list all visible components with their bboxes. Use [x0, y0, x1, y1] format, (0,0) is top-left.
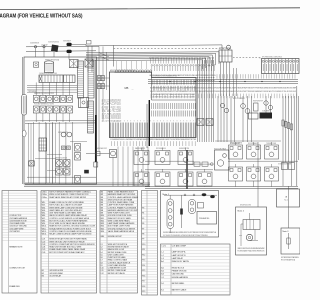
- stub row with terminal loops upper middle row 2: [151, 65, 153, 67]
- shielded cable center dark bar: [148, 100, 150, 146]
- svg-text:REAR MOTOR BODY MAIN: REAR MOTOR BODY MAIN: [108, 217, 131, 220]
- relay K8: [40, 106, 46, 113]
- connector tick row on bundle: [197, 77, 199, 79]
- note1 small box: [198, 203, 204, 209]
- svg-text:3M6795NS22S4U7HPHINPAMKWW4M2: 3M6795NS22S4U7HPHINPAMKWW4M2: [238, 247, 265, 250]
- svg-text:F11: F11: [142, 249, 145, 251]
- main harness bus top line B+: [86, 45, 222, 46]
- svg-text:F12: F12: [142, 254, 145, 256]
- svg-text:GROUND REAR: GROUND REAR: [49, 272, 63, 275]
- svg-text:F16: F16: [142, 275, 145, 277]
- svg-text:LAMP REAR SIGNAL HARNESS: LAMP REAR SIGNAL HARNESS: [108, 222, 135, 225]
- note1 top feed wire: [164, 194, 217, 196]
- svg-text:RELAY BLOCK: RELAY BLOCK: [172, 266, 185, 269]
- wire from C1 to bus: [72, 43, 86, 45]
- connector strip CN10 vertical pins: [78, 61, 84, 98]
- table: main harness connector T2: [41, 191, 97, 294]
- lamp L1: [56, 160, 62, 167]
- relay box K0b with hatch: [85, 59, 93, 67]
- ignition relay blob: [51, 45, 59, 53]
- sub module pin ticks row 1: [152, 80, 154, 85]
- mid tick rows right of ECU: [151, 103, 153, 109]
- svg-text:MAIN HORN GLOW: MAIN HORN GLOW: [108, 248, 125, 251]
- svg-text:HVC39VB3A9HG5A: HVC39VB3A9HG5A: [281, 259, 296, 262]
- right harness bundle: [282, 96, 284, 162]
- svg-text:ENGINE SENSOR VALVE: ENGINE SENSOR VALVE: [108, 246, 130, 249]
- IG main vertical: [113, 45, 115, 66]
- svg-text:—: —: [132, 89, 134, 91]
- svg-text:W13L: W13L: [42, 233, 47, 235]
- fuse box FB2 striped: [262, 59, 300, 74]
- bottom bus right section: [145, 186, 298, 188]
- bus merge diagonals: [99, 53, 109, 57]
- horizontal link wires lower panel: [25, 119, 95, 122]
- connector strip CN11 vertical pins: [88, 61, 94, 98]
- svg-text:TJPPOKF9B: TJPPOKF9B: [28, 91, 36, 93]
- relay K9: [47, 106, 53, 113]
- panel bottom double line: [24, 185, 150, 187]
- note1 terminal circles: [184, 194, 186, 196]
- injector group row1 INJ3: [178, 151, 193, 165]
- resistors on right bundle: [282, 120, 284, 126]
- glow plug wires group: [217, 96, 219, 142]
- shield drain wire: [146, 104, 148, 148]
- connector C1: [67, 43, 72, 46]
- sub module pin ticks row 2: [153, 86, 155, 91]
- wire harness top-left horizontal: [26, 45, 99, 48]
- svg-text:M16: M16: [101, 231, 105, 233]
- capacitor block: [62, 146, 66, 150]
- glow relay box: [249, 113, 259, 119]
- right bundle extra wire: [298, 96, 300, 160]
- svg-text:F5: F5: [142, 218, 144, 220]
- blower motor M2: [110, 150, 117, 158]
- junction dots on bus: [170, 81, 171, 82]
- svg-text:BODY REAR LIGHT HORN: BODY REAR LIGHT HORN: [108, 225, 131, 228]
- svg-text:VALVE SOLENOID LAMP WIRE HEAD: VALVE SOLENOID LAMP WIRE HEAD RELAY: [49, 214, 87, 217]
- ECU side connectors CN5 CN6: [98, 76, 101, 81]
- svg-text:LAMP GROUP A: LAMP GROUP A: [172, 251, 186, 254]
- vacuum valve VSV0: [220, 103, 224, 107]
- extra horizontal links lower panel: [47, 154, 62, 156]
- svg-text:REAR VALVE REAR RELAY POWER ME: REAR VALVE REAR RELAY POWER METER: [49, 196, 87, 199]
- svg-text:F13: F13: [142, 260, 145, 262]
- svg-text:A-1: A-1: [161, 260, 164, 263]
- svg-text:ID7D2SEIJUG1: ID7D2SEIJUG1: [156, 148, 166, 150]
- fuse block strip: [39, 75, 63, 82]
- svg-text:B-1: B-1: [161, 267, 164, 269]
- wires ECU left side: [105, 77, 110, 79]
- vertical wires left of ECU: [98, 47, 100, 152]
- note1 sub-circuit box: [161, 191, 219, 238]
- engine control module MB stepped outline: [110, 72, 197, 138]
- svg-text:F18: F18: [142, 286, 145, 288]
- svg-text:EL3FS938R8AUKPAD8L754JHBH7T9CC: EL3FS938R8AUKPAD8L754JHBH7T9CC2P5C3S3EEW…: [150, 87, 297, 90]
- svg-text:Note 2: Note 2: [238, 209, 245, 212]
- svg-text:LAMP HORN PUMP HARNESS: LAMP HORN PUMP HARNESS: [108, 204, 134, 207]
- injector group row2 SV4: [197, 172, 212, 186]
- relay box K0 with hatch: [70, 60, 79, 68]
- svg-text:E-1: E-1: [161, 289, 164, 291]
- svg-text:UNIT WIRE REAR GLOW PANEL WIRE: UNIT WIRE REAR GLOW PANEL WIRE: [49, 212, 82, 215]
- svg-text:RELAY COMB SOLENOID LAMP PUMP: RELAY COMB SOLENOID LAMP PUMP SOLENOID: [49, 232, 92, 235]
- lamp L3: [56, 168, 62, 175]
- svg-text:CN7 METER: CN7 METER: [9, 231, 20, 233]
- coil row baseline: [115, 71, 152, 73]
- relay K1: [33, 95, 39, 102]
- svg-text:BATTERY CABLE: BATTERY CABLE: [172, 288, 187, 291]
- junction block label box right: [277, 189, 300, 207]
- relay K12: [67, 106, 73, 113]
- svg-text:CN4 FRAME WIRE: CN4 FRAME WIRE: [9, 222, 25, 225]
- svg-text:METER COMB RELAY: METER COMB RELAY: [108, 269, 127, 272]
- svg-text:CONTROL VALVE SWITCH: CONTROL VALVE SWITCH: [108, 261, 131, 264]
- svg-text:PLUG WIRE GLOW VALVE VALVE ENG: PLUG WIRE GLOW VALVE VALVE ENGINE: [49, 222, 85, 225]
- svg-text:CONTROL REAR PLUG FRAME GROUND: CONTROL REAR PLUG FRAME GROUND ENGINE: [49, 230, 92, 233]
- svg-text:BHJ1J16OCWH8I4: BHJ1J16OCWH8I4: [230, 143, 242, 145]
- fusible link FL2 on left rail: [22, 95, 27, 116]
- note2 motor circle: [246, 234, 252, 240]
- fuse F0 oval on left rail: [22, 130, 26, 137]
- bus drop verticals left: [87, 46, 89, 72]
- injector group row1 INJ1: [134, 151, 149, 165]
- relay K10: [53, 106, 59, 113]
- svg-text:VALVE REAR HARNESS VALVE: VALVE REAR HARNESS VALVE: [108, 230, 135, 233]
- svg-text:UU4UH3RMO8: UU4UH3RMO8: [30, 42, 39, 44]
- svg-text:F10: F10: [142, 244, 145, 246]
- injector group row2 SV5: [229, 167, 243, 181]
- stub row with terminal loops upper middle row 1: [150, 57, 152, 59]
- wire drops from relays to bottom bus: [35, 113, 37, 122]
- inline connector pair mid: [197, 119, 204, 126]
- note1 fuse holder tube: [167, 199, 174, 229]
- svg-text:F491ROBSH86DOE4OWRSUK937OU527R: F491ROBSH86DOE4OWRSUK937OU527RN58SO7F26P…: [163, 232, 217, 234]
- lamp L4: [64, 168, 70, 175]
- note1 preheating timer box: [197, 212, 217, 225]
- svg-text:ENGINE GROUP: ENGINE GROUP: [108, 236, 123, 238]
- svg-text:K37MI395NI5CPA2SB9L: K37MI395NI5CPA2SB9L: [281, 256, 299, 259]
- junction block JB1: [79, 98, 89, 108]
- injector group row2 SV3: [178, 172, 193, 186]
- extra vertical wires lower panel: [28, 123, 30, 183]
- svg-text:HARNESS HARNESS MOTOR UNIT: HARNESS HARNESS MOTOR UNIT: [108, 209, 139, 212]
- svg-text:L-3: L-3: [161, 258, 164, 260]
- svg-text:13J6WU4D4T4BLSNWLCRVK: 13J6WU4D4T4BLSNWLCRVK: [39, 73, 58, 75]
- main harness bus lines: [86, 51, 219, 54]
- table: lamp wire connector T3: [100, 191, 138, 294]
- svg-text:METER PANEL: METER PANEL: [172, 282, 185, 285]
- svg-text:H2NPS3H1PV1P: H2NPS3H1PV1P: [253, 101, 263, 103]
- svg-text:F5O8EUSA8MTTWACVNE6OFBIMKGOK: F5O8EUSA8MTTWACVNE6OFBIMKGOK: [238, 250, 266, 253]
- note2 relay box: [243, 220, 260, 230]
- svg-text:PUMP MOTOR HEAD: PUMP MOTOR HEAD: [108, 256, 127, 259]
- svg-text:CN6 LAMP WIRE: CN6 LAMP WIRE: [9, 227, 24, 230]
- svg-text:CONTROL REAR PANEL COMB: CONTROL REAR PANEL COMB: [108, 201, 135, 204]
- svg-text:PANEL COMB HARNESS BODY: PANEL COMB HARNESS BODY: [108, 191, 135, 194]
- pin stubs below label band: [111, 141, 113, 146]
- svg-text:AGRAM (FOR VEHICLE WITHOUT SAS: AGRAM (FOR VEHICLE WITHOUT SAS): [0, 14, 83, 20]
- svg-text:JC6H6DMIOV5LFLLGWI18WVCUVFS2HF: JC6H6DMIOV5LFLLGWI18WVCUVFS2HFOMI8V1SHWK…: [110, 139, 197, 141]
- relay K5: [60, 95, 66, 102]
- svg-text:FRAME COMB GLOW UNIT HORN PANE: FRAME COMB GLOW UNIT HORN PANEL: [49, 201, 84, 204]
- injector group row1 INJ2: [155, 151, 170, 165]
- sub module divider line: [152, 99, 197, 101]
- svg-text:F19: F19: [142, 291, 145, 293]
- tick row with labels y95: [150, 94, 152, 99]
- svg-text:D-1: D-1: [161, 283, 164, 285]
- svg-text:CN2 MAIN HARNESS: CN2 MAIN HARNESS: [9, 217, 28, 220]
- svg-text:HARNESS REAR UNIT GROUND: HARNESS REAR UNIT GROUND: [108, 193, 136, 196]
- svg-text:93GVGIWCF: 93GVGIWCF: [63, 41, 71, 43]
- wire drops to relay row: [35, 82, 37, 95]
- ign aux wires: [233, 68, 235, 96]
- resistor R20: [194, 162, 200, 166]
- battery B1 cylinder: [45, 62, 54, 73]
- svg-text:L-1: L-1: [161, 252, 164, 254]
- ignition switch pin stubs: [220, 62, 222, 96]
- main bus lines center right: [148, 79, 298, 81]
- svg-text:WBEE4T9JCHDS3N: WBEE4T9JCHDS3N: [55, 157, 68, 159]
- injector group row2 SV7: [265, 167, 279, 181]
- harness stub drops to coil row: [116, 61, 118, 70]
- svg-text:L.R S.W: L.R S.W: [41, 44, 48, 46]
- ignition switch IG1: [219, 50, 232, 62]
- connector C2: [67, 50, 72, 53]
- svg-text:F3: F3: [142, 207, 144, 209]
- fuel pump motor box M1: [215, 150, 230, 170]
- svg-text:CONTROL FRAME PLUG ENGINE: CONTROL FRAME PLUG ENGINE: [108, 206, 137, 209]
- svg-text:LAMP GROUP B: LAMP GROUP B: [172, 254, 186, 257]
- svg-text:METER SIGNAL FUSE: METER SIGNAL FUSE: [108, 251, 127, 254]
- svg-text:MOTOR POWER UNIT SIGNAL REAR A: MOTOR POWER UNIT SIGNAL REAR ACC: [49, 251, 85, 254]
- relay K11: [60, 106, 66, 113]
- svg-text:REAR MOTOR CONTROL GROUND SOLE: REAR MOTOR CONTROL GROUND SOLENOID GLOW: [49, 225, 95, 228]
- far right edge wires: [296, 86, 298, 186]
- bus wires inside panel: [27, 84, 77, 86]
- svg-text:METER UNIT VALVE: METER UNIT VALVE: [108, 272, 126, 275]
- svg-text:WIRE GROUND UNIT HORN BODY REL: WIRE GROUND UNIT HORN BODY RELAY: [49, 240, 85, 243]
- svg-text:WIRE WIRE LAMP COMB UNIT ENGIN: WIRE WIRE LAMP COMB UNIT ENGINE: [49, 206, 83, 209]
- accessory box A1: [34, 62, 39, 67]
- injector group row2 SV2: [155, 172, 170, 186]
- resistor R10: [254, 103, 259, 111]
- wires ECU bottom to lower components: [117, 147, 119, 187]
- svg-text:4VTW48GNDSHVE8I: 4VTW48GNDSHVE8I: [278, 164, 291, 166]
- svg-text:KGWV6IRPI786: KGWV6IRPI786: [179, 148, 189, 150]
- wire stub to battery: [35, 48, 37, 57]
- svg-text:E3: E3: [42, 275, 44, 277]
- svg-text:EN0: EN0: [101, 236, 105, 238]
- svg-text:F7: F7: [142, 228, 144, 230]
- svg-text:CU6: CU6: [42, 252, 46, 254]
- svg-text:FRAME W/H: FRAME W/H: [9, 285, 20, 288]
- right end relay boxes: [282, 163, 288, 170]
- shielded cable left dark bar: [95, 115, 97, 162]
- svg-text:CONTROL HEAD HARNESS FRAME: CONTROL HEAD HARNESS FRAME: [108, 196, 139, 199]
- horn H1: [61, 132, 66, 137]
- stub tick row below labels: [216, 74, 218, 78]
- relay K4: [53, 95, 59, 102]
- relay K2: [40, 95, 46, 102]
- svg-text:B-3: B-3: [161, 274, 164, 276]
- note2 wires: [249, 213, 251, 220]
- fusible link FL1: [34, 46, 36, 48]
- note3 component: [288, 233, 290, 249]
- sensor S3: [75, 176, 81, 184]
- connector at end of shield: [94, 162, 98, 167]
- svg-text:OJ6TNJTUBU92D: OJ6TNJTUBU92D: [48, 42, 60, 44]
- table: connector index T1: [2, 191, 37, 294]
- key cylinder circle: [227, 45, 231, 49]
- svg-text:CN3m: CN3m: [42, 197, 48, 199]
- svg-text:F15: F15: [142, 270, 145, 272]
- dashed IG wire: [114, 47, 116, 49]
- wire to blower: [86, 153, 110, 155]
- connector strip CN12 lower segment: [88, 101, 94, 133]
- svg-text:UEHEPWDT9GO1I3LFUU921D35: UEHEPWDT9GO1I3LFUU921D35: [34, 93, 54, 95]
- glow controller dark box: [260, 113, 273, 119]
- svg-text:MOTOR PLUG ACC FUSE POWER HARN: MOTOR PLUG ACC FUSE POWER HARNESS: [49, 219, 88, 222]
- dashed accessory wire: [233, 57, 235, 59]
- page top border line: [0, 8, 300, 10]
- injector group row1 INJ4: [229, 145, 243, 159]
- svg-text:S931FGG2PI2T3: S931FGG2PI2T3: [219, 48, 230, 50]
- svg-text:REAR BODY EARTH: REAR BODY EARTH: [172, 260, 190, 263]
- feed wire above right injector row: [215, 140, 281, 142]
- note1 relay pill: [189, 200, 196, 214]
- svg-text:F17: F17: [142, 281, 145, 283]
- coil loop row above ECU: [116, 70, 152, 72]
- injector group row1 INJ5: [247, 145, 261, 159]
- relay K3: [47, 95, 53, 102]
- fuse block strip 2: [64, 75, 76, 82]
- svg-text:SWITCH ACC ACC VALVE GLOW LAMP: SWITCH ACC ACC VALVE GLOW LAMP: [49, 204, 83, 207]
- svg-text:REMARK NOTE: REMARK NOTE: [9, 246, 23, 249]
- svg-text:F8: F8: [142, 233, 144, 235]
- svg-text:L-2: L-2: [161, 255, 164, 257]
- resistor R21: [202, 162, 208, 166]
- svg-text:WIRE COMB WIRE PANEL: WIRE COMB WIRE PANEL: [108, 219, 130, 222]
- svg-text:GLOW RELAY: GLOW RELAY: [49, 274, 62, 277]
- svg-text:HEAD CONTROL MAIN: HEAD CONTROL MAIN: [108, 259, 128, 262]
- switch SW1 box: [29, 161, 34, 166]
- terminal T1 dark: [84, 170, 89, 174]
- svg-text:IOH68CO466SDBVS5AC836HFNPPG6M7: IOH68CO466SDBVS5AC836HFNPPG6M7BFMAMI844O…: [150, 90, 297, 93]
- svg-text:CUT AND CRIMP: CUT AND CRIMP: [172, 244, 187, 247]
- svg-text:GROUND SIGNAL PLUG METER: GROUND SIGNAL PLUG METER: [108, 227, 136, 230]
- svg-text:WTLPSRLN2SKL1OIJIHD2GKD2: WTLPSRLN2SKL1OIJIHD2GKD2: [262, 56, 282, 58]
- vacuum valve VSV1: [241, 104, 246, 109]
- svg-text:No.2: No.2: [284, 199, 288, 201]
- svg-text:xxxx: xxxx: [239, 235, 242, 237]
- injector group row2 SV6: [247, 167, 261, 181]
- svg-text:5ECBF4JU25T8J: 5ECBF4JU25T8J: [240, 205, 251, 207]
- svg-text:F6: F6: [142, 223, 144, 225]
- note1 center wire with fusible link: [181, 195, 183, 228]
- row2 stubs to bottom bus: [141, 185, 143, 188]
- svg-text:SWITCH SENSOR HARNESS POWER CO: SWITCH SENSOR HARNESS POWER COMB ACC: [49, 191, 91, 194]
- svg-text:SIGNAL METER SOLENOID POWER LI: SIGNAL METER SOLENOID POWER LIGHT BODY: [49, 227, 92, 230]
- note1 inline connector ovals: [202, 193, 207, 196]
- svg-text:FRAME REAR PANEL PANEL PANEL R: FRAME REAR PANEL PANEL PANEL REAR: [49, 248, 86, 251]
- injector group row1 INJ6: [265, 145, 279, 159]
- note2 sub-circuit box: [236, 207, 267, 255]
- table: frame wire T4: [142, 191, 158, 296]
- injector group row2 SV1: [134, 172, 149, 186]
- svg-text:LIGHT HEAD ENGINE: LIGHT HEAD ENGINE: [108, 264, 127, 267]
- svg-text:C-1: C-1: [161, 277, 164, 279]
- wires down to note boxes: [257, 142, 259, 207]
- svg-text:FRAME GROUND: FRAME GROUND: [172, 270, 187, 273]
- svg-text:LAMP RELAY: LAMP RELAY: [172, 257, 184, 260]
- inline connector on blower wire: [96, 151, 100, 156]
- svg-text:ENGINE HARNESS: ENGINE HARNESS: [172, 276, 189, 279]
- center dark shield 2: [186, 150, 188, 189]
- svg-text:LAMP PANEL ACC GROUND WIRE ACC: LAMP PANEL ACC GROUND WIRE ACC: [49, 209, 83, 212]
- sensor S1: [75, 144, 81, 152]
- note3 sub-circuit box: [281, 228, 300, 254]
- svg-text:B-2: B-2: [161, 271, 164, 273]
- svg-text:F4: F4: [142, 213, 144, 215]
- svg-text:IOC1JHIKK7SCEEHM1E1GCNNKSONBG5: IOC1JHIKK7SCEEHM1E1GCNNKSONBG5NM73T91A67…: [163, 234, 208, 237]
- svg-text:C of J: C of J: [161, 245, 166, 247]
- svg-text:F9: F9: [142, 239, 144, 241]
- svg-text:F14: F14: [142, 265, 145, 267]
- sensor circles right: [264, 101, 268, 105]
- sensor S2: [75, 153, 81, 161]
- diode block D1: [39, 138, 47, 151]
- inter-row wire bus: [145, 160, 194, 162]
- panel inner bottom bus: [25, 182, 150, 184]
- table: note list T5: [161, 244, 231, 295]
- left component panel frame: [24, 57, 97, 184]
- svg-text:SENSOR RELAY HORN UNIT POWER P: SENSOR RELAY HORN UNIT POWER PANEL: [49, 238, 87, 241]
- vertical harness drop bundle center: [197, 60, 199, 142]
- svg-text:I96PD5CMPCTV: I96PD5CMPCTV: [58, 132, 69, 134]
- lamp L2: [64, 160, 70, 167]
- ECU bottom connector pin comb: [110, 123, 112, 138]
- svg-text:CAB GROUND: CAB GROUND: [172, 273, 185, 276]
- pin number dots above comb: [110, 120, 112, 121]
- relay K6: [67, 95, 73, 102]
- svg-text:CONTROL GLOW SENSOR GLOW MAIN: CONTROL GLOW SENSOR GLOW MAIN VALVE: [49, 217, 90, 220]
- feed wire to pump motor: [188, 163, 214, 165]
- svg-text:MB: MB: [125, 86, 129, 90]
- relay K7: [33, 106, 39, 113]
- svg-text:Note 3: Note 3: [283, 230, 290, 233]
- svg-text:SWITCH MOTOR UNIT REAR: SWITCH MOTOR UNIT REAR: [108, 198, 133, 201]
- svg-text:HEAD UNIT ENGINE BODY ACC WIRE: HEAD UNIT ENGINE BODY ACC WIRE: [49, 246, 82, 249]
- svg-text:L12: L12: [101, 273, 104, 275]
- svg-text:CONNECTOR LIST: CONNECTOR LIST: [9, 268, 26, 270]
- tiny terminal box above frame: [87, 41, 92, 45]
